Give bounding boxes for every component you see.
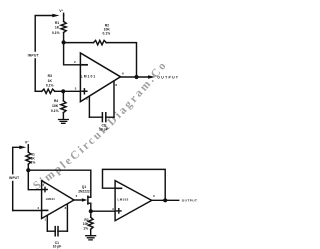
plus sign LM102 xyxy=(117,209,121,213)
svg-text:10 pF: 10 pF xyxy=(53,245,62,249)
svg-text:R3: R3 xyxy=(48,74,52,78)
resistor R1 (top) zigzag xyxy=(61,22,66,33)
wire R2 left lead xyxy=(64,42,94,44)
output arrowhead (top) xyxy=(148,75,155,79)
transistor Q1 base bar xyxy=(87,196,89,204)
capacitor C1 (top) plates xyxy=(102,113,105,122)
wire feedback loop LM102 xyxy=(103,169,166,200)
resistor R1 (bottom) zigzag xyxy=(26,152,31,164)
label INPUT (bottom) xyxy=(7,174,20,180)
svg-text:1K: 1K xyxy=(55,26,60,30)
svg-text:OUTPUT: OUTPUT xyxy=(182,198,198,202)
wire pin2b from INPUT right xyxy=(13,210,42,212)
node junction R1b xyxy=(26,168,30,172)
resistor R2 zigzag xyxy=(94,40,107,44)
minus sign pin2 xyxy=(82,64,87,66)
svg-text:1K: 1K xyxy=(48,79,53,83)
wire rail to collector xyxy=(28,170,91,197)
plus sign pin3 xyxy=(82,89,87,94)
wire INPUT vertical + top run to arrow xyxy=(35,16,52,92)
wire R4 top lead xyxy=(62,91,64,101)
wire R3 left lead from INPUT xyxy=(35,90,42,92)
label INPUT (top) xyxy=(27,52,40,58)
ground (top circuit) xyxy=(59,120,69,124)
transistor Q1 collector lead xyxy=(88,196,91,198)
svg-text:30 pF: 30 pF xyxy=(99,127,108,131)
plus sign pin3b xyxy=(43,187,47,191)
node V+ tick (bottom) xyxy=(27,145,29,148)
wire pin1b down xyxy=(46,216,48,232)
capacitor C1 (top) leads xyxy=(89,116,114,118)
svg-text:R1: R1 xyxy=(55,21,59,25)
svg-text:OUTPUT: OUTPUT xyxy=(157,75,179,79)
svg-text:0.1%: 0.1% xyxy=(52,31,60,35)
svg-text:2N2222: 2N2222 xyxy=(78,189,90,193)
capacitor C1b plates xyxy=(55,227,58,236)
op-amp U2 LM101 triangle xyxy=(42,181,74,219)
node junction R3/R4/pin3 xyxy=(61,89,65,93)
wire pin8b down xyxy=(66,204,68,231)
resistor R4 zigzag xyxy=(61,101,66,113)
node junction R1/R2/pin2 xyxy=(62,40,66,44)
input arrowhead (bottom) xyxy=(19,146,26,150)
wire pin8 down xyxy=(113,81,115,117)
node output2 junction xyxy=(163,198,167,202)
op-amp U1 LM101 triangle xyxy=(80,53,120,102)
minus sign pin2b xyxy=(43,209,48,211)
resistor R3 zigzag xyxy=(42,89,55,93)
wire LM102 output xyxy=(152,199,179,201)
wire INPUT vertical (bottom) + top run to arrow xyxy=(13,147,20,210)
resistor R1 (top) leads xyxy=(63,16,65,43)
wire pin1 down xyxy=(88,97,90,118)
svg-text:LM101: LM101 xyxy=(46,197,56,201)
wire output apex to arrow xyxy=(121,76,151,78)
wire R2b bottom lead xyxy=(90,229,92,235)
wire pin2 from node down and right xyxy=(64,43,81,65)
svg-text:LM102: LM102 xyxy=(118,198,129,202)
svg-text:0.1%: 0.1% xyxy=(51,109,59,113)
wire pin3b from node down/right xyxy=(28,170,41,190)
svg-text:INPUT: INPUT xyxy=(28,54,40,58)
minus sign LM102 xyxy=(117,187,122,189)
base arrowhead Q1 xyxy=(82,198,87,201)
capacitor C1b leads xyxy=(47,230,67,232)
node emitter junction xyxy=(89,209,93,213)
node V+ tick (top) xyxy=(63,13,65,15)
input arrowhead (top circuit) xyxy=(52,14,59,18)
wire R3 to node and pin3 xyxy=(55,90,81,92)
svg-text:1%: 1% xyxy=(31,161,36,165)
resistor R1 (bottom) leads xyxy=(27,147,29,170)
svg-text:R4: R4 xyxy=(54,99,58,103)
wire emitter to LM102 plus input xyxy=(91,210,115,212)
resistor R2b zigzag xyxy=(88,217,93,229)
wire R2 right to feedback corner down to output node xyxy=(106,43,136,77)
svg-text:10K: 10K xyxy=(52,104,59,108)
svg-text:0.1%: 0.1% xyxy=(103,32,111,36)
transistor Q1 emitter lead xyxy=(88,203,91,211)
svg-text:INPUT: INPUT xyxy=(9,176,19,180)
resistor R2b top lead xyxy=(90,211,92,217)
wire R4 bottom lead xyxy=(62,113,64,120)
ground (bottom circuit) xyxy=(86,236,96,240)
svg-text:0.1%: 0.1% xyxy=(46,84,54,88)
op-amp U3 LM102 triangle xyxy=(115,181,152,221)
node output junction xyxy=(134,75,138,79)
svg-text:1%: 1% xyxy=(83,226,88,230)
svg-text:LM101: LM101 xyxy=(81,74,97,78)
wire base lead from apex xyxy=(74,199,83,201)
